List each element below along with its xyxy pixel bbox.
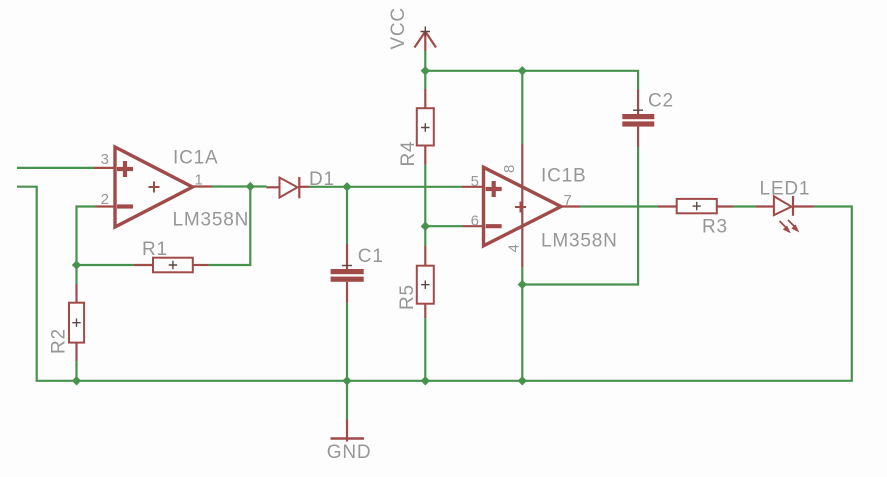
- wire IC1A pin2 to node R1-left: [77, 207, 135, 266]
- wire R5 bottom to ground rail: [424, 318, 426, 381]
- LED LED1 emission arrow 1: [780, 221, 790, 232]
- capacitor C2 top lead: [637, 89, 639, 114]
- diode D1 cathode lead: [299, 186, 309, 188]
- wire R4 top from rail: [424, 71, 426, 89]
- wire R3 to LED1: [733, 205, 756, 207]
- resistor R2 origin cross: [72, 319, 80, 327]
- capacitor C2 origin cross: [633, 109, 643, 111]
- svg-text:LM358N: LM358N: [541, 231, 618, 252]
- svg-text:C2: C2: [648, 91, 674, 112]
- op-amp U2 IC1B triangle: [484, 167, 562, 246]
- resistor R3 body: [677, 199, 717, 213]
- svg-text:R2: R2: [49, 328, 70, 354]
- junction node VCC rail: [421, 66, 430, 75]
- pin 2 lead IC1A: [96, 205, 116, 207]
- resistor R4 origin cross: [421, 123, 429, 131]
- svg-text:R1: R1: [142, 239, 168, 260]
- resistor R2 body: [69, 303, 84, 343]
- pin 5 lead IC1B: [462, 186, 484, 188]
- svg-text:R5: R5: [397, 284, 418, 310]
- resistor R3 origin cross: [693, 202, 701, 210]
- svg-text:8: 8: [501, 165, 518, 173]
- resistor R4 bottom lead: [424, 146, 426, 165]
- resistor R5 bottom lead: [424, 304, 426, 319]
- wire GND stem: [346, 381, 348, 420]
- wire node C1 top: [346, 187, 348, 244]
- junction node C1 top: [342, 182, 351, 191]
- capacitor C1 bottom plate: [331, 277, 364, 282]
- wire R1 right up to output node: [208, 187, 250, 266]
- wire R5 top lead: [424, 226, 426, 246]
- svg-text:GND: GND: [327, 442, 372, 463]
- pin 1 lead IC1A output: [191, 185, 211, 187]
- wire top rail to C2 top: [425, 71, 638, 90]
- op-amp IC1B minus input mark: [486, 224, 502, 228]
- pin 7 lead IC1B output: [561, 205, 580, 207]
- junction node C1 bottom rail: [342, 376, 351, 385]
- svg-text:D1: D1: [309, 169, 335, 190]
- svg-text:R3: R3: [702, 217, 728, 238]
- wire R2 bottom to ground rail: [75, 361, 77, 381]
- junction node R1 R2 pin2: [72, 260, 81, 269]
- resistor R2 top lead: [75, 284, 77, 303]
- resistor R1 right lead: [193, 264, 208, 266]
- wire pin6 node to IC1B pin6: [425, 225, 462, 227]
- resistor R4 top lead: [424, 89, 426, 108]
- svg-text:IC1A: IC1A: [173, 148, 218, 169]
- resistor R5 body: [417, 266, 434, 304]
- junction node pin4 ground rail: [518, 376, 527, 385]
- capacitor C2 bottom plate: [622, 121, 654, 126]
- pin 3 lead IC1A: [94, 167, 115, 169]
- capacitor C1 top plate: [331, 269, 364, 274]
- diode D1 anode lead: [267, 186, 280, 188]
- op-amp IC1A plus input mark: [117, 161, 133, 177]
- op-amp IC1A center plus: [149, 182, 160, 193]
- pin 6 lead IC1B: [463, 225, 484, 227]
- wire input net B / bottom ground rail / LED return: [17, 187, 852, 381]
- op-amp U1 IC1A triangle: [115, 147, 193, 227]
- wire R4 bottom through pin5 net to pin6 node: [424, 165, 426, 226]
- junction node pin8 rail: [518, 66, 527, 75]
- wire pin8 from top rail: [521, 71, 523, 144]
- svg-text:C1: C1: [358, 246, 384, 267]
- LED LED1 cathode bar: [792, 196, 794, 216]
- wire VCC to top rail: [424, 51, 426, 71]
- resistor R2 bottom lead: [75, 343, 77, 361]
- svg-text:R4: R4: [398, 141, 419, 167]
- wire IC1A output to D1 anode: [212, 185, 267, 187]
- diode D1 cathode bar: [298, 177, 300, 198]
- svg-text:3: 3: [101, 151, 109, 168]
- wire pin4 node to ground rail: [521, 267, 523, 381]
- resistor R1 body: [153, 258, 193, 273]
- LED LED1 anode lead: [756, 205, 774, 207]
- capacitor C1 origin cross: [342, 265, 352, 267]
- capacitor C1 bottom lead: [346, 282, 348, 303]
- svg-text:4: 4: [506, 244, 523, 252]
- junction node R5 ground: [421, 376, 430, 385]
- svg-text:VCC: VCC: [388, 7, 409, 50]
- LED LED1 emission arrow 2: [788, 220, 798, 231]
- junction node pin6: [421, 222, 430, 231]
- wire R2 top lead net: [75, 265, 77, 284]
- resistor R1 left lead: [134, 264, 153, 266]
- svg-text:7: 7: [564, 192, 572, 209]
- supply VCC symbol: [415, 27, 437, 52]
- resistor R3 right lead: [717, 205, 733, 207]
- wire D1 cathode to IC1B pin5: [309, 186, 462, 188]
- resistor R1 origin cross: [169, 261, 177, 269]
- svg-text:6: 6: [471, 212, 479, 229]
- resistor R3 left lead: [658, 205, 677, 207]
- resistor R5 top lead: [424, 246, 426, 266]
- svg-text:2: 2: [101, 191, 109, 208]
- junction node R2 ground rail: [72, 376, 81, 385]
- op-amp IC1A minus input mark: [117, 204, 133, 208]
- svg-text:LED1: LED1: [760, 178, 811, 199]
- wire input net A to IC1A pin3: [17, 167, 94, 169]
- junction node pin4 C2: [518, 280, 527, 289]
- resistor R5 origin cross: [421, 281, 429, 289]
- LED LED1 cathode lead: [793, 205, 814, 207]
- svg-text:1: 1: [195, 172, 203, 189]
- wire IC1B output to R3: [580, 205, 658, 207]
- capacitor C2 top plate: [622, 114, 654, 119]
- junction node output IC1A: [246, 182, 255, 191]
- wire C1 bottom to ground rail: [346, 303, 348, 381]
- diode D1 triangle: [280, 178, 298, 198]
- ground GND symbol: [331, 420, 365, 442]
- pin 8 and pin 4 vertical lead IC1B: [521, 144, 523, 267]
- svg-text:IC1B: IC1B: [541, 166, 586, 187]
- op-amp IC1B plus input mark: [486, 181, 502, 197]
- svg-text:LM358N: LM358N: [173, 210, 250, 231]
- resistor R4 body: [417, 108, 434, 145]
- capacitor C1 top lead: [346, 244, 348, 269]
- wire C2 bottom to pin4 node: [522, 147, 638, 285]
- LED LED1 triangle: [774, 196, 792, 215]
- capacitor C2 bottom lead: [637, 127, 639, 147]
- svg-text:5: 5: [471, 173, 479, 190]
- op-amp IC1B center plus: [515, 202, 526, 213]
